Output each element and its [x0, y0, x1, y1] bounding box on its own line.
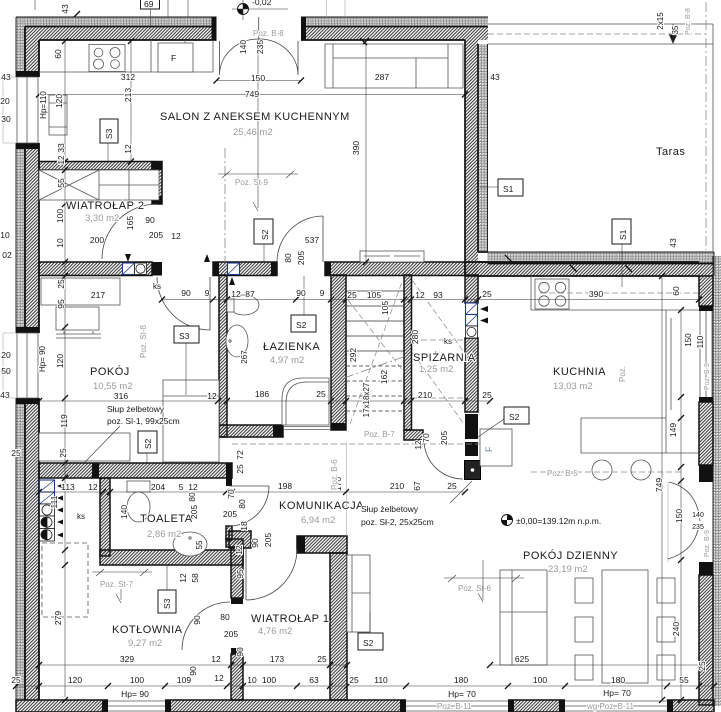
- svg-text:312: 312: [121, 72, 135, 82]
- svg-text:70: 70: [226, 489, 236, 499]
- svg-text:25: 25: [482, 390, 492, 400]
- svg-text:25: 25: [56, 279, 66, 289]
- svg-text:90: 90: [296, 288, 306, 298]
- svg-text:205: 205: [296, 251, 306, 265]
- svg-text:198: 198: [278, 481, 292, 491]
- svg-text:10: 10: [0, 230, 10, 240]
- svg-text:43: 43: [1, 72, 11, 82]
- svg-text:20: 20: [0, 96, 10, 106]
- svg-text:90: 90: [188, 666, 198, 676]
- svg-text:25,46 m2: 25,46 m2: [233, 127, 273, 138]
- svg-text:12: 12: [171, 231, 181, 241]
- svg-text:55: 55: [56, 178, 66, 188]
- svg-text:Hp=110: Hp=110: [39, 91, 48, 119]
- svg-text:235: 235: [692, 524, 704, 531]
- svg-text:240: 240: [671, 622, 681, 636]
- svg-text:S3: S3: [179, 331, 190, 341]
- svg-text:12: 12: [88, 482, 98, 492]
- svg-text:wg Poz. B-11: wg Poz. B-11: [586, 702, 635, 711]
- svg-text:80: 80: [220, 612, 230, 622]
- svg-text:13,03 m2: 13,03 m2: [553, 381, 593, 392]
- svg-text:F: F: [171, 53, 176, 63]
- svg-text:S2: S2: [260, 229, 270, 240]
- svg-text:25: 25: [11, 448, 21, 458]
- svg-text:5: 5: [179, 482, 184, 492]
- svg-text:100: 100: [55, 209, 65, 223]
- svg-text:12: 12: [57, 155, 66, 164]
- svg-text:105: 105: [380, 301, 390, 315]
- svg-text:90: 90: [145, 215, 155, 225]
- svg-text:F: F: [484, 446, 494, 452]
- svg-text:50: 50: [1, 366, 11, 376]
- svg-text:119: 119: [59, 414, 69, 428]
- svg-text:12: 12: [214, 673, 224, 683]
- svg-text:90: 90: [181, 288, 191, 298]
- svg-text:Poz. B-9: Poz. B-9: [704, 363, 711, 390]
- svg-text:6,94 m2: 6,94 m2: [301, 515, 335, 526]
- svg-text:267: 267: [240, 350, 249, 364]
- svg-text:390: 390: [589, 289, 603, 299]
- svg-text:213: 213: [123, 88, 133, 102]
- svg-text:63: 63: [309, 675, 319, 685]
- svg-text:58: 58: [190, 573, 200, 583]
- svg-text:43: 43: [0, 390, 10, 400]
- svg-text:749: 749: [654, 478, 664, 492]
- svg-text:Taras: Taras: [656, 146, 685, 158]
- svg-text:9,27 m2: 9,27 m2: [128, 638, 162, 649]
- svg-text:12: 12: [123, 144, 133, 154]
- svg-text:ks: ks: [153, 282, 161, 291]
- svg-text:35: 35: [671, 25, 680, 34]
- svg-text:80: 80: [187, 492, 197, 502]
- svg-text:69: 69: [144, 0, 154, 9]
- svg-text:12: 12: [415, 290, 425, 300]
- svg-text:204: 204: [151, 482, 165, 492]
- svg-text:205: 205: [263, 533, 273, 547]
- svg-text:105: 105: [367, 290, 381, 300]
- svg-text:POKÓJ DZIENNY: POKÓJ DZIENNY: [523, 549, 618, 562]
- svg-text:S2: S2: [143, 438, 153, 449]
- svg-text:KOMUNIKACJA: KOMUNIKACJA: [279, 500, 364, 512]
- svg-text:4,76 m2: 4,76 m2: [258, 626, 292, 637]
- svg-text:287: 287: [375, 72, 389, 82]
- svg-text:Poz. St-8: Poz. St-8: [139, 325, 148, 358]
- svg-text:113: 113: [61, 482, 75, 492]
- svg-text:Hp= 90: Hp= 90: [38, 345, 47, 372]
- svg-text:25: 25: [316, 389, 326, 399]
- svg-text:23,19 m2: 23,19 m2: [548, 564, 588, 575]
- svg-text:12: 12: [207, 391, 217, 401]
- svg-text:625: 625: [515, 654, 529, 664]
- svg-text:180: 180: [611, 675, 625, 685]
- svg-text:200: 200: [90, 235, 104, 245]
- svg-text:25: 25: [349, 675, 359, 685]
- svg-text:162: 162: [379, 370, 389, 384]
- svg-text:749: 749: [245, 89, 259, 99]
- svg-text:S2: S2: [509, 412, 520, 422]
- svg-text:70: 70: [421, 433, 431, 443]
- svg-text:25: 25: [347, 290, 357, 300]
- svg-text:205: 205: [223, 509, 237, 519]
- svg-text:2x15: 2x15: [656, 12, 665, 30]
- svg-text:ŁAZIENKA: ŁAZIENKA: [263, 341, 320, 353]
- svg-text:100: 100: [262, 675, 276, 685]
- svg-text:90: 90: [235, 647, 245, 657]
- svg-text:poz. Sl-1, 99x25cm: poz. Sl-1, 99x25cm: [107, 416, 180, 426]
- svg-text:Poz. St-6: Poz. St-6: [458, 584, 491, 593]
- svg-text:80: 80: [283, 253, 293, 263]
- svg-text:02: 02: [2, 250, 12, 260]
- svg-text:1,25 m2: 1,25 m2: [419, 364, 453, 375]
- svg-text:S3: S3: [162, 598, 172, 609]
- svg-text:Poz. B-5: Poz. B-5: [547, 469, 578, 478]
- svg-text:110: 110: [696, 335, 705, 348]
- svg-text:S3: S3: [104, 128, 114, 139]
- svg-text:25: 25: [697, 661, 707, 671]
- svg-text:205: 205: [149, 230, 163, 240]
- svg-text:KOTŁOWNIA: KOTŁOWNIA: [112, 624, 183, 636]
- svg-text:12: 12: [234, 545, 244, 555]
- svg-text:100: 100: [533, 675, 547, 685]
- svg-text:WIATROŁAP 2: WIATROŁAP 2: [66, 200, 144, 212]
- svg-text:18: 18: [239, 521, 249, 531]
- svg-text:43: 43: [668, 238, 678, 248]
- svg-text:-0,02: -0,02: [252, 0, 272, 7]
- svg-text:33: 33: [56, 143, 66, 153]
- svg-text:210: 210: [418, 390, 432, 400]
- svg-text:KUCHNIA: KUCHNIA: [553, 366, 606, 378]
- svg-text:S1: S1: [503, 184, 514, 194]
- svg-text:30: 30: [1, 114, 11, 124]
- svg-text:Poz. St-9: Poz. St-9: [235, 178, 268, 187]
- svg-text:Poz. B-7: Poz. B-7: [364, 430, 395, 439]
- svg-text:10: 10: [55, 238, 65, 248]
- svg-text:279: 279: [53, 611, 63, 625]
- svg-text:390: 390: [351, 141, 361, 155]
- svg-text:140: 140: [238, 40, 248, 54]
- svg-text:9: 9: [205, 288, 210, 298]
- svg-text:±0,00=139.12m n.p.m.: ±0,00=139.12m n.p.m.: [516, 516, 601, 526]
- svg-text:poz. Sł-2, 25x25cm: poz. Sł-2, 25x25cm: [361, 517, 434, 527]
- svg-text:180: 180: [454, 675, 468, 685]
- svg-text:WIATROŁAP 1: WIATROŁAP 1: [251, 613, 329, 625]
- svg-text:Poz. B-8: Poz. B-8: [685, 8, 692, 35]
- svg-text:140: 140: [119, 505, 129, 519]
- svg-text:149: 149: [668, 423, 678, 437]
- svg-text:TOALETA: TOALETA: [140, 513, 193, 525]
- svg-text:Poz. St-7: Poz. St-7: [100, 580, 133, 589]
- svg-text:Poz. B-9: Poz. B-9: [704, 530, 711, 557]
- svg-text:173: 173: [270, 654, 284, 664]
- svg-text:Poz. B-6: Poz. B-6: [330, 459, 339, 490]
- svg-text:111: 111: [49, 495, 59, 508]
- svg-text:Hp= 90: Hp= 90: [121, 689, 149, 699]
- svg-text:POKÓJ: POKÓJ: [90, 365, 130, 378]
- svg-text:120: 120: [55, 354, 65, 368]
- svg-text:Hp= 70: Hp= 70: [448, 689, 476, 699]
- svg-text:186: 186: [255, 389, 269, 399]
- svg-text:4,97 m2: 4,97 m2: [270, 355, 304, 366]
- svg-text:67: 67: [412, 481, 422, 491]
- svg-text:10: 10: [247, 675, 257, 685]
- svg-text:S2: S2: [296, 320, 307, 330]
- svg-text:150: 150: [674, 509, 684, 523]
- svg-text:210: 210: [390, 481, 404, 491]
- svg-text:43: 43: [490, 72, 500, 82]
- svg-text:Poz.: Poz.: [618, 366, 627, 382]
- svg-text:25: 25: [235, 464, 245, 474]
- svg-text:Słup żelbetowy: Słup żelbetowy: [361, 504, 419, 514]
- svg-text:55: 55: [679, 675, 689, 685]
- svg-text:55: 55: [195, 540, 204, 549]
- svg-text:2,86 m2: 2,86 m2: [147, 529, 181, 540]
- svg-text:12: 12: [178, 573, 188, 583]
- svg-text:235: 235: [255, 40, 265, 54]
- svg-text:205: 205: [439, 431, 449, 445]
- svg-text:292: 292: [348, 348, 358, 362]
- svg-text:90: 90: [192, 615, 202, 625]
- svg-text:SALON Z ANEKSEM KUCHENNYM: SALON Z ANEKSEM KUCHENNYM: [160, 111, 350, 123]
- svg-text:120: 120: [68, 675, 82, 685]
- svg-text:120: 120: [54, 94, 64, 108]
- svg-text:95: 95: [56, 299, 66, 309]
- svg-text:140: 140: [692, 512, 704, 519]
- svg-text:205: 205: [189, 505, 199, 519]
- svg-text:90: 90: [250, 538, 260, 548]
- svg-text:205: 205: [224, 629, 238, 639]
- svg-text:20: 20: [1, 350, 11, 360]
- svg-text:25: 25: [11, 675, 21, 685]
- svg-text:43: 43: [60, 4, 70, 14]
- svg-text:ks: ks: [444, 337, 452, 346]
- svg-text:Poz. B-11: Poz. B-11: [437, 702, 472, 711]
- svg-text:25: 25: [58, 448, 68, 458]
- svg-text:87: 87: [245, 289, 255, 299]
- svg-text:150: 150: [251, 73, 265, 83]
- svg-text:Hp= 70: Hp= 70: [603, 688, 631, 698]
- svg-text:537: 537: [305, 235, 319, 245]
- svg-text:316: 316: [114, 391, 128, 401]
- svg-text:9: 9: [320, 288, 325, 298]
- svg-text:100: 100: [130, 675, 144, 685]
- svg-text:ks: ks: [77, 512, 85, 521]
- svg-text:Słup żelbetowy: Słup żelbetowy: [107, 404, 165, 414]
- svg-text:12: 12: [211, 654, 221, 664]
- svg-text:S2: S2: [363, 638, 374, 648]
- svg-text:12: 12: [188, 482, 198, 492]
- svg-text:3,30 m2: 3,30 m2: [85, 213, 119, 224]
- svg-text:60: 60: [53, 49, 63, 59]
- svg-text:17x18x27: 17x18x27: [362, 382, 371, 417]
- svg-text:95: 95: [235, 569, 245, 579]
- svg-text:150: 150: [684, 333, 693, 347]
- svg-text:SPIŻARNIA: SPIŻARNIA: [413, 351, 476, 364]
- svg-text:25: 25: [317, 654, 327, 664]
- svg-text:280: 280: [410, 330, 420, 344]
- svg-text:93: 93: [433, 290, 443, 300]
- svg-text:25: 25: [447, 481, 457, 491]
- svg-text:110: 110: [374, 675, 388, 685]
- svg-text:217: 217: [91, 290, 105, 300]
- svg-text:165: 165: [125, 216, 135, 230]
- svg-text:72: 72: [235, 450, 245, 460]
- svg-text:12: 12: [231, 289, 241, 299]
- svg-text:80: 80: [237, 499, 247, 509]
- svg-text:S1: S1: [618, 229, 628, 240]
- svg-text:329: 329: [120, 654, 134, 664]
- svg-text:Poz. B-8: Poz. B-8: [253, 29, 284, 38]
- svg-text:60: 60: [671, 286, 681, 296]
- svg-text:25: 25: [482, 289, 492, 299]
